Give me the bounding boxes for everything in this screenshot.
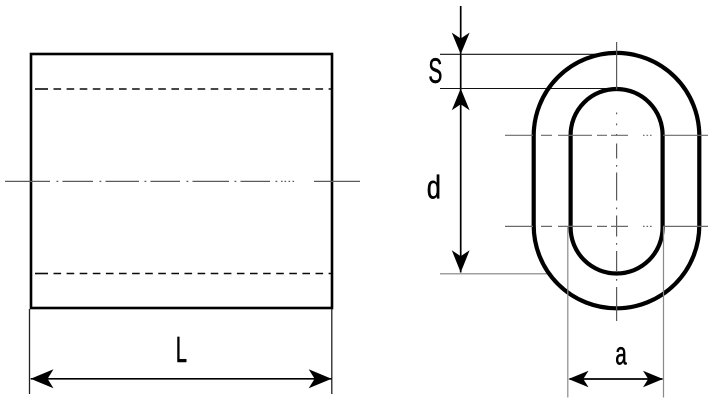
arrowhead S down [452, 33, 470, 55]
vertical dimension line for S and d [460, 6, 462, 273]
extension line a right [663, 227, 665, 398]
extension line a left [567, 227, 569, 398]
upper arc centerline [505, 134, 708, 136]
dimension line L [31, 378, 332, 380]
extension line inner bottom [440, 273, 550, 275]
arrowhead a right [643, 371, 663, 388]
inner oval of front view (bore) [571, 89, 663, 274]
arrowhead S/d up [452, 89, 470, 111]
arrowhead L right [309, 369, 332, 388]
arrowhead d down [452, 250, 470, 272]
side view rectangle [31, 54, 332, 308]
extension line inner top [440, 88, 617, 90]
extension line L right [331, 309, 333, 394]
outer oval of front view [534, 53, 700, 308]
hidden line bottom (bore lower edge) [35, 273, 331, 275]
extension line L left [29, 309, 31, 394]
dimension line a [570, 378, 663, 380]
horizontal centerline of side view [5, 180, 360, 182]
arrowhead a left [569, 371, 589, 388]
label d [428, 175, 439, 199]
hidden line top (bore upper edge) [35, 88, 331, 90]
arrowhead L left [31, 369, 54, 388]
label a [616, 347, 627, 365]
label L [178, 337, 187, 362]
label S [429, 58, 441, 83]
vertical centerline of front view [616, 42, 618, 321]
extension line outer top [440, 53, 620, 55]
lower arc centerline [505, 225, 708, 227]
